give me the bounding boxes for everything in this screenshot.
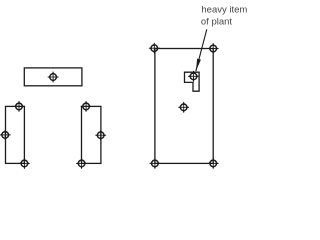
right machine base rectangle xyxy=(82,106,101,163)
leader arrowhead xyxy=(196,59,201,71)
setting-out point: large rect top-left corner xyxy=(149,43,160,54)
leader line xyxy=(196,29,207,71)
setting-out point: right rect bottom-left corner xyxy=(76,158,87,169)
top machine base rectangle xyxy=(24,68,82,86)
setting-out point: left rect bottom-right corner xyxy=(19,158,30,169)
svg-text:of plant: of plant xyxy=(201,17,233,28)
large foundation rectangle xyxy=(155,49,213,164)
setting-out point: right rect top edge xyxy=(81,101,92,112)
setting-out point: right rect right edge xyxy=(95,130,106,141)
setting-out point: top rect centre xyxy=(48,72,59,83)
setting-out point: large rect bottom-right corner xyxy=(208,158,219,169)
setting-out point: large rect bottom-left corner xyxy=(149,158,160,169)
left machine base rectangle xyxy=(6,106,25,163)
svg-text:heavy item: heavy item xyxy=(201,5,247,16)
heavy item of plant outline xyxy=(185,72,200,91)
setting-out point: heavy item xyxy=(188,71,199,82)
setting-out point: inside large rect xyxy=(178,102,189,113)
setting-out point: large rect top-right corner xyxy=(208,43,219,54)
setting-out point: left rect left edge xyxy=(0,129,11,140)
setting-out point: left rect top edge xyxy=(14,101,25,112)
